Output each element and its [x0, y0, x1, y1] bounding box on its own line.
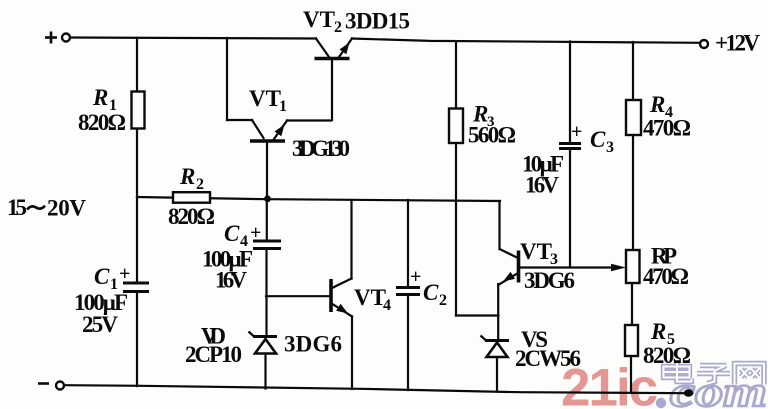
svg-text:R: R: [92, 85, 108, 110]
svg-text:VT: VT: [520, 239, 552, 264]
svg-text:470Ω: 470Ω: [643, 116, 691, 141]
svg-text:470Ω: 470Ω: [643, 264, 689, 289]
svg-text:+: +: [250, 222, 261, 244]
svg-text:3DG6: 3DG6: [284, 332, 342, 357]
svg-text:C: C: [94, 264, 110, 289]
svg-text:R: R: [649, 92, 665, 117]
svg-text:3: 3: [606, 139, 614, 156]
svg-text:2: 2: [439, 292, 447, 309]
svg-text:+: +: [119, 263, 130, 285]
svg-text:VT: VT: [354, 285, 386, 310]
svg-text:25V: 25V: [82, 312, 118, 337]
svg-text:2CP10: 2CP10: [185, 342, 242, 367]
svg-text:+: +: [410, 266, 421, 288]
svg-text:3DG130: 3DG130: [292, 136, 350, 161]
svg-text:com: com: [670, 369, 767, 409]
svg-text:20V: 20V: [47, 196, 86, 221]
svg-text:820Ω: 820Ω: [168, 204, 215, 229]
svg-text:3DD15: 3DD15: [345, 9, 410, 34]
svg-text:4: 4: [383, 297, 391, 314]
svg-text:+: +: [571, 121, 582, 143]
svg-text:R: R: [650, 319, 666, 344]
svg-text:16V: 16V: [215, 268, 247, 293]
svg-text:R: R: [179, 164, 195, 189]
svg-text:VT: VT: [249, 86, 281, 111]
svg-text:C: C: [423, 280, 439, 305]
svg-text:560Ω: 560Ω: [468, 123, 516, 148]
svg-text:2CW56: 2CW56: [515, 346, 581, 371]
svg-text:+12V: +12V: [715, 31, 760, 56]
svg-text:16V: 16V: [525, 173, 559, 198]
svg-text:VT: VT: [303, 7, 335, 32]
svg-text:1: 1: [279, 98, 287, 115]
svg-text:3: 3: [550, 251, 558, 268]
svg-text:15: 15: [7, 195, 27, 220]
svg-text:C: C: [590, 127, 606, 152]
svg-text:820Ω: 820Ω: [643, 343, 691, 368]
svg-text:820Ω: 820Ω: [78, 110, 126, 135]
svg-text:2: 2: [334, 19, 342, 36]
svg-text:2: 2: [196, 176, 204, 193]
svg-text:3DG6: 3DG6: [524, 268, 575, 293]
svg-text:C: C: [224, 221, 240, 246]
